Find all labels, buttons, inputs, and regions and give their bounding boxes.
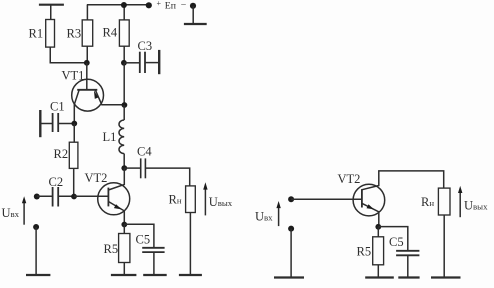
arrow Uvyx left bbox=[203, 182, 207, 215]
node G junction VT2emitter-R5-C5 bbox=[121, 222, 127, 228]
svg-text:C5: C5 bbox=[136, 233, 151, 247]
ground bar R5 left bbox=[111, 274, 136, 276]
resistor Rn left bbox=[186, 186, 196, 213]
wire C4 to Rn bbox=[145, 168, 189, 186]
svg-text:VT1: VT1 bbox=[62, 68, 85, 82]
svg-text:Uвых: Uвых bbox=[464, 198, 488, 212]
wire input ground down bbox=[35, 227, 37, 275]
svg-text:Uвх: Uвх bbox=[2, 206, 20, 220]
svg-text:C2: C2 bbox=[49, 175, 64, 189]
capacitor C5 right bbox=[396, 251, 419, 256]
ground bar input left bbox=[26, 274, 50, 276]
input ground dot left bbox=[33, 224, 39, 230]
wire R4 top bbox=[123, 5, 125, 20]
terminal bar below minus bbox=[184, 23, 207, 25]
wire C5 down right bbox=[407, 255, 409, 277]
svg-text:+: + bbox=[157, 0, 162, 8]
wire C3 right bbox=[145, 62, 159, 64]
wire input to C2 bbox=[37, 195, 52, 197]
node E junction C2-R2-VT2base bbox=[71, 194, 77, 200]
terminal plus bbox=[146, 2, 152, 8]
ground bar R5 right bbox=[365, 276, 394, 278]
input terminal dot left bbox=[34, 194, 40, 200]
wire C1 left bbox=[40, 123, 52, 125]
svg-text:R2: R2 bbox=[54, 147, 69, 161]
wire input ground down right bbox=[290, 229, 292, 277]
resistor R4 bbox=[119, 20, 129, 46]
arrow Uvyx right bbox=[458, 186, 462, 217]
svg-text:Rн: Rн bbox=[421, 195, 434, 209]
node F junction L1-C4-VT2collector bbox=[121, 165, 127, 171]
wire input to VT2 base right bbox=[291, 198, 362, 200]
wire Rn bottom right bbox=[443, 215, 445, 277]
terminal minus bbox=[190, 3, 196, 9]
node A junction R1-R3-base bbox=[84, 60, 90, 66]
arrow Uvx right bbox=[276, 201, 280, 226]
ground bar Rn left bbox=[179, 274, 202, 276]
wire C1 to node D bbox=[58, 123, 74, 125]
wire R5 bottom right bbox=[377, 265, 379, 277]
wire minus terminal down bbox=[192, 6, 194, 24]
svg-text:Rн: Rн bbox=[169, 193, 182, 207]
resistor R5 left bbox=[119, 234, 130, 263]
terminal bar above R1 bbox=[39, 4, 64, 6]
svg-text:–: – bbox=[180, 0, 186, 8]
resistor R2 bbox=[69, 142, 78, 168]
wire R1 bottom to node A bbox=[50, 47, 87, 63]
node B junction R4-C3 bbox=[121, 60, 127, 66]
svg-text:VT2: VT2 bbox=[85, 171, 108, 185]
wire node B down to node C bbox=[123, 63, 125, 105]
wire R3 top bbox=[86, 5, 88, 20]
resistor Rn right bbox=[438, 188, 450, 215]
svg-text:C1: C1 bbox=[50, 100, 65, 114]
wire R3 bottom bbox=[86, 46, 88, 63]
svg-text:Uвх: Uвх bbox=[255, 210, 273, 224]
svg-text:R3: R3 bbox=[67, 27, 82, 41]
wire node A to VT1 base bbox=[86, 63, 88, 90]
svg-text:Eп: Eп bbox=[165, 1, 177, 12]
wire node B to C3 bbox=[124, 62, 139, 64]
svg-text:C3: C3 bbox=[138, 39, 153, 53]
wire R2 bottom to node E bbox=[73, 168, 75, 196]
wire Rn bottom left bbox=[189, 213, 191, 275]
terminal bar C3 right bbox=[158, 50, 160, 74]
svg-text:Uвых: Uвых bbox=[209, 195, 233, 209]
transistor VT1 bbox=[72, 79, 125, 123]
svg-text:L1: L1 bbox=[103, 130, 117, 144]
wire node H to R5 right bbox=[377, 227, 379, 237]
arrow Uvx left bbox=[22, 196, 26, 225]
ground bar input right bbox=[274, 276, 304, 278]
ground bar C5 right bbox=[398, 276, 419, 278]
svg-text:R5: R5 bbox=[357, 245, 372, 259]
wire R4 bottom bbox=[123, 46, 125, 63]
wire R1 top bbox=[50, 5, 52, 20]
capacitor C4 bbox=[124, 158, 145, 178]
inductor L1 bbox=[119, 105, 124, 168]
power rail +Ep bbox=[87, 4, 149, 6]
ground bar Rn right bbox=[431, 276, 461, 278]
capacitor C5 left bbox=[142, 248, 164, 252]
node D junction C1-R2-VT1 bbox=[71, 121, 77, 127]
wire C5 down left bbox=[153, 252, 155, 274]
wire R5 bottom left bbox=[123, 263, 125, 275]
svg-text:C4: C4 bbox=[137, 145, 152, 159]
input ground dot right bbox=[288, 226, 294, 232]
svg-text:C5: C5 bbox=[389, 235, 404, 249]
wire node H to C5 right bbox=[378, 227, 408, 251]
wire C2 to node E bbox=[58, 195, 74, 197]
resistor R1 bbox=[46, 20, 55, 48]
junction rail-R4 bbox=[121, 2, 127, 8]
capacitor C3 bbox=[140, 52, 145, 73]
wire node D to R2 bbox=[73, 124, 75, 143]
node C junction VT1emitter-L1 bbox=[122, 102, 128, 108]
transistor VT2 right bbox=[353, 171, 444, 227]
wire node G to R5 bbox=[123, 225, 125, 234]
svg-text:R4: R4 bbox=[103, 26, 118, 40]
transistor VT2 left bbox=[98, 168, 130, 224]
wire node E to VT2 base bbox=[74, 195, 108, 197]
node H junction VT2emitter-R5-C5 right bbox=[375, 224, 381, 230]
capacitor C1 bbox=[53, 113, 59, 132]
capacitor C2 bbox=[53, 187, 59, 207]
resistor R3 bbox=[82, 20, 93, 46]
terminal bar C1 left bbox=[39, 110, 41, 137]
svg-text:R1: R1 bbox=[29, 27, 44, 41]
input terminal dot right bbox=[288, 196, 294, 202]
svg-text:R5: R5 bbox=[104, 242, 119, 256]
wire node G to C5 left bbox=[124, 224, 154, 247]
resistor R5 right bbox=[373, 237, 384, 265]
svg-text:VT2: VT2 bbox=[338, 172, 361, 186]
ground bar C5 left bbox=[143, 274, 167, 276]
